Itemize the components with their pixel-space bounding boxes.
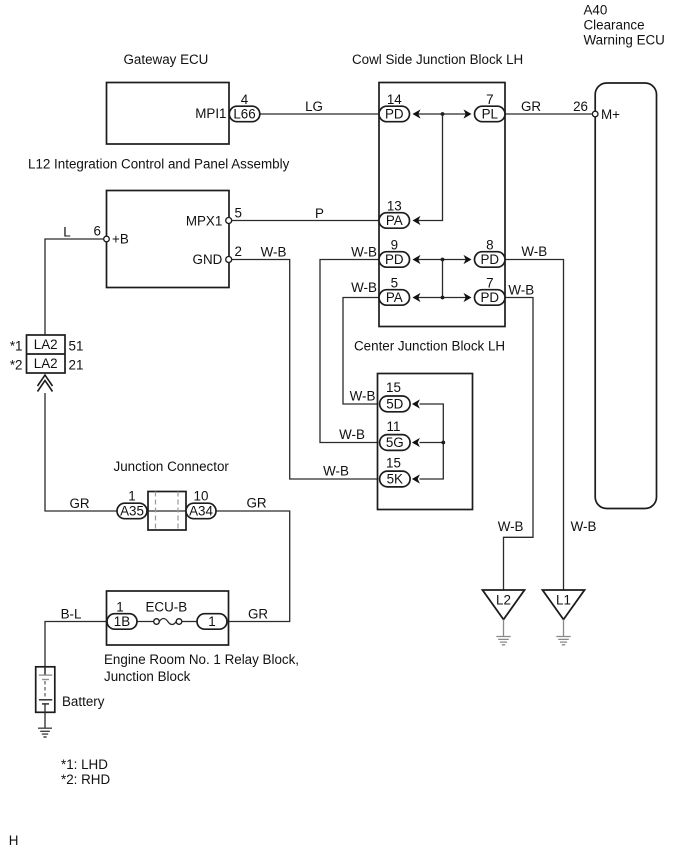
svg-text:W-B: W-B <box>350 389 376 404</box>
svg-text:11: 11 <box>387 419 401 434</box>
svg-text:1: 1 <box>208 614 215 629</box>
svg-text:8: 8 <box>486 237 493 252</box>
svg-text:B-L: B-L <box>61 607 82 622</box>
svg-text:W-B: W-B <box>571 519 597 534</box>
svg-text:*1: LHD: *1: LHD <box>61 757 108 772</box>
svg-text:Gateway ECU: Gateway ECU <box>124 52 209 67</box>
svg-text:PD: PD <box>385 252 404 267</box>
svg-text:1: 1 <box>116 600 123 615</box>
svg-text:5D: 5D <box>386 397 403 412</box>
svg-text:5: 5 <box>235 206 242 221</box>
svg-text:*1: *1 <box>10 339 23 354</box>
internal wire row PD9-PD8 <box>413 255 472 264</box>
svg-text:Junction Connector: Junction Connector <box>114 459 230 474</box>
connector PL pin 7 <box>475 92 506 122</box>
fuse ECU-B <box>137 619 197 625</box>
connector PD pin 7 <box>475 275 506 305</box>
svg-text:GR: GR <box>246 496 266 511</box>
svg-text:26: 26 <box>573 99 588 114</box>
wire W-B from PD8 to L1 <box>505 244 596 590</box>
connector A34 pin 10 <box>186 489 216 519</box>
svg-text:GND: GND <box>193 252 223 267</box>
shield continuation chevron <box>38 375 53 392</box>
svg-text:A34: A34 <box>189 504 213 519</box>
Gateway ECU box <box>107 52 230 144</box>
wire W-B from PD7 to L2 <box>498 283 535 591</box>
svg-text:L12 Integration Control and Pa: L12 Integration Control and Panel Assemb… <box>28 157 290 172</box>
svg-text:PD: PD <box>480 252 499 267</box>
svg-text:*2: RHD: *2: RHD <box>61 772 110 787</box>
L12 Integration Control and Panel Assembly box <box>28 157 290 288</box>
pin 6 +B <box>94 224 110 242</box>
wire through junction connector <box>147 510 186 512</box>
svg-text:1B: 1B <box>114 614 130 629</box>
wire GR from A34 to ECU-B oval 1 <box>216 496 290 622</box>
svg-text:MPI1: MPI1 <box>195 106 226 121</box>
svg-text:14: 14 <box>387 92 402 107</box>
wire LG from L66 to PD14 <box>260 99 379 114</box>
svg-text:L2: L2 <box>496 593 511 608</box>
svg-text:L66: L66 <box>233 107 255 122</box>
svg-text:5K: 5K <box>387 472 403 487</box>
ground triangle L2 <box>483 590 525 645</box>
svg-text:1: 1 <box>128 489 135 504</box>
internal wire of center junction block <box>412 399 445 483</box>
svg-text:7: 7 <box>486 92 493 107</box>
svg-text:H: H <box>9 833 19 848</box>
page letter H <box>9 833 19 848</box>
svg-text:Clearance: Clearance <box>584 18 645 33</box>
svg-text:L: L <box>63 225 70 240</box>
note *2 RHD <box>61 772 110 787</box>
Junction Connector box <box>114 459 230 530</box>
svg-text:W-B: W-B <box>521 244 547 259</box>
svg-text:PD: PD <box>385 107 404 122</box>
svg-text:M+: M+ <box>601 107 620 122</box>
svg-text:15: 15 <box>386 380 401 395</box>
wire W-B from PD9 to 5G <box>320 245 379 443</box>
svg-text:LG: LG <box>305 99 323 114</box>
wire L from +B down to LA2 <box>45 225 104 336</box>
pin 26 M+ <box>573 99 598 117</box>
pin 5 MPX1 <box>226 206 242 224</box>
battery <box>36 667 105 728</box>
wire GR from PL to M+ <box>505 99 592 114</box>
svg-text:W-B: W-B <box>351 280 377 295</box>
svg-text:GR: GR <box>521 99 541 114</box>
svg-text:Center Junction Block LH: Center Junction Block LH <box>354 339 505 354</box>
connector A35 pin 1 <box>117 489 147 519</box>
svg-text:MPX1: MPX1 <box>186 214 222 229</box>
wire GR from chevron to A35 <box>45 393 117 511</box>
A40 Clearance Warning ECU box <box>584 3 665 509</box>
svg-text:Battery: Battery <box>62 694 105 709</box>
svg-text:51: 51 <box>69 339 84 354</box>
connector PD pin 9 <box>379 237 410 267</box>
connector 5K pin 15 <box>380 455 411 487</box>
svg-text:L1: L1 <box>556 593 571 608</box>
svg-text:15: 15 <box>386 455 401 470</box>
connector 1B pin 1 <box>107 600 137 630</box>
svg-text:LA2: LA2 <box>34 356 58 371</box>
svg-text:Cowl Side Junction Block LH: Cowl Side Junction Block LH <box>352 52 523 67</box>
internal vertical wire PD9 row to PA5 row <box>442 260 444 298</box>
svg-text:2: 2 <box>235 244 242 259</box>
svg-text:W-B: W-B <box>339 427 365 442</box>
svg-text:*2: *2 <box>10 358 23 373</box>
connector PD pin 8 <box>475 237 506 267</box>
svg-text:LA2: LA2 <box>34 337 58 352</box>
svg-text:W-B: W-B <box>351 245 377 260</box>
svg-text:4: 4 <box>241 92 249 107</box>
internal wire row PD14-PL7 <box>413 109 472 118</box>
svg-text:9: 9 <box>391 237 398 252</box>
svg-text:PD: PD <box>480 290 499 305</box>
ground triangle L1 <box>543 590 585 645</box>
connector PA pin 13 <box>379 198 410 228</box>
internal vertical wire to PA13 <box>413 114 443 225</box>
svg-text:+B: +B <box>112 232 129 247</box>
svg-text:13: 13 <box>387 198 402 213</box>
svg-text:5: 5 <box>391 275 398 290</box>
svg-text:GR: GR <box>69 496 89 511</box>
wire W-B from PA5 to 5D <box>343 280 379 404</box>
svg-text:PA: PA <box>386 290 403 305</box>
svg-text:Warning ECU: Warning ECU <box>584 33 665 48</box>
connector PD pin 14 <box>379 92 410 122</box>
LA2 connector box <box>10 335 84 373</box>
svg-text:7: 7 <box>486 275 493 290</box>
svg-text:GR: GR <box>248 607 268 622</box>
svg-text:A40: A40 <box>584 3 608 18</box>
Cowl Side Junction Block LH box <box>352 52 523 327</box>
svg-text:10: 10 <box>194 489 209 504</box>
Center Junction Block LH box <box>354 339 505 510</box>
internal wire row PA5-PD7 <box>413 293 472 302</box>
svg-text:W-B: W-B <box>323 464 349 479</box>
connector 5G pin 11 <box>380 419 411 450</box>
connector L66 pin 4 <box>229 92 259 122</box>
svg-text:21: 21 <box>69 358 84 373</box>
svg-text:Engine Room No. 1 Relay Block,: Engine Room No. 1 Relay Block, <box>104 652 299 667</box>
svg-text:W-B: W-B <box>261 245 287 260</box>
ECU-B relay block box <box>104 591 299 684</box>
svg-text:W-B: W-B <box>498 519 524 534</box>
connector 1 <box>197 614 227 630</box>
svg-text:PL: PL <box>482 107 498 122</box>
connector 5D pin 15 <box>380 380 411 412</box>
svg-text:P: P <box>315 206 324 221</box>
note *1 LHD <box>61 757 108 772</box>
battery ground <box>38 728 52 737</box>
wire P from MPX1 to PA13 <box>232 206 379 221</box>
wire B-L from 1B to battery <box>45 607 107 676</box>
svg-text:A35: A35 <box>120 504 144 519</box>
pin 2 GND <box>226 244 242 263</box>
svg-text:PA: PA <box>386 213 403 228</box>
svg-text:ECU-B: ECU-B <box>146 600 188 615</box>
svg-text:6: 6 <box>94 224 101 239</box>
svg-text:5G: 5G <box>386 435 404 450</box>
svg-text:W-B: W-B <box>508 283 534 298</box>
connector PA pin 5 <box>379 275 410 305</box>
svg-text:Junction Block: Junction Block <box>104 669 191 684</box>
wire W-B from GND to 5K <box>232 245 378 480</box>
